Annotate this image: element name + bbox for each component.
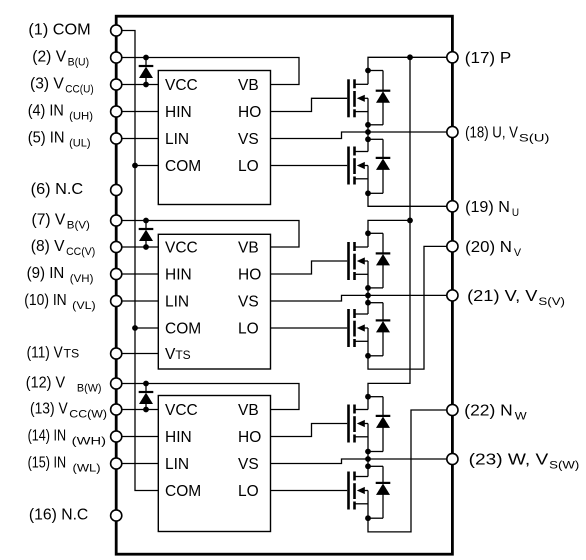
freewheel diode of Q3 (368, 233, 390, 288)
wire HO driver 3 to Q5 gate (271, 424, 348, 437)
pin (18) terminal circle (447, 126, 458, 137)
pin (22) terminal circle (447, 404, 458, 415)
wire HO driver 2 to Q3 gate (271, 261, 348, 274)
svg-text:(10) IN(VL): (10) IN(VL) (24, 292, 96, 312)
wire VS driver 3 to phase node W (271, 459, 369, 464)
junction dot Q5 drain / diode cathode (365, 394, 371, 400)
svg-text:(9) IN(VH): (9) IN(VH) (27, 265, 94, 285)
transistor Q1 (U high-side MOSFET) (349, 79, 369, 117)
junction dot VB(V) / diode cathode (143, 218, 149, 224)
svg-text:VCC: VCC (165, 240, 198, 257)
wire phase node V vertical (Q3 source to Q4 drain) (367, 261, 369, 314)
wire COM bus from pin 1 to driver 3 COM (116, 31, 158, 491)
wire VB(W) from pin to driver 3 VB (116, 384, 299, 410)
svg-text:LIN: LIN (165, 294, 189, 311)
wire phase node W vertical (Q5 source to Q6 drain) (367, 424, 369, 477)
pin (10) terminal circle (111, 295, 122, 306)
bootstrap diode D1 (139, 58, 154, 85)
svg-text:VS: VS (238, 456, 259, 473)
svg-text:VCC: VCC (165, 77, 198, 94)
bootstrap diode D3 (139, 384, 154, 410)
junction dot Q6 drain / diode cathode (365, 463, 371, 469)
junction dot P bus / pin 17 (407, 54, 413, 60)
wire Q2 source to pin 19 N_U (368, 166, 452, 207)
junction dot VB(W) / diode cathode (143, 381, 149, 387)
svg-text:COM: COM (165, 321, 201, 338)
svg-text:HIN: HIN (165, 429, 192, 446)
wire COM bus tap to driver 2 COM (135, 327, 158, 329)
transistor Q5 (W high-side MOSFET) (349, 405, 369, 443)
wire IN(VH) to driver 2 HIN (116, 273, 158, 275)
wire IN(VL) to driver 2 LIN (116, 300, 158, 302)
svg-text:VB: VB (238, 240, 259, 257)
svg-text:(23) W, VS(W): (23) W, VS(W) (469, 452, 580, 472)
svg-text:HIN: HIN (165, 104, 192, 121)
wire Q4 source to pin 20 N_V (368, 246, 452, 369)
junction dot VCC(V) / diode anode (143, 244, 149, 250)
pin (12) terminal circle (111, 378, 122, 389)
wire Q6 source to pin 22 N_W (368, 410, 452, 532)
P bus tap to high-side V drain (368, 220, 410, 247)
junction dot phase node U (365, 129, 371, 135)
gate driver block U1 (158, 71, 270, 205)
svg-text:(16) N.C: (16) N.C (29, 507, 88, 524)
junction dot Q3 drain / diode cathode (365, 230, 371, 236)
pin (17) terminal circle (447, 52, 458, 63)
svg-text:LIN: LIN (165, 131, 189, 148)
gate driver block U2 (158, 234, 270, 369)
svg-text:VS: VS (238, 131, 259, 148)
svg-text:(15) IN(WL): (15) IN(WL) (28, 455, 101, 475)
wire LO driver 3 to Q6 gate (271, 490, 348, 492)
svg-text:COM: COM (165, 158, 201, 175)
svg-text:LO: LO (238, 321, 259, 338)
svg-text:LO: LO (238, 158, 259, 175)
wire VCC(W) from pin to driver 3 VCC (116, 409, 158, 411)
wire VB(U) from pin to driver 1 VB (116, 58, 299, 85)
freewheel diode of Q5 (368, 397, 390, 452)
transistor Q6 (W low-side MOSFET) (349, 472, 369, 510)
freewheel diode of Q6 (368, 466, 390, 518)
wire U node to pin 18 (368, 131, 452, 133)
pin (8) terminal circle (111, 241, 122, 252)
svg-text:(8) VCC(V): (8) VCC(V) (31, 238, 96, 258)
pin (2) terminal circle (111, 52, 122, 63)
svg-text:(19) NU: (19) NU (465, 199, 519, 219)
pin (19) terminal circle (447, 201, 458, 212)
svg-text:(13) VCC(W): (13) VCC(W) (30, 401, 107, 421)
svg-text:(12) VB(W): (12) VB(W) (26, 375, 102, 395)
wire COM bus tap to driver 1 COM (135, 165, 158, 167)
pin (4) terminal circle (111, 106, 122, 117)
svg-text:VS: VS (238, 294, 259, 311)
freewheel diode of Q4 (368, 303, 390, 356)
pin (7) terminal circle (111, 215, 122, 226)
transistor Q3 (V high-side MOSFET) (349, 242, 369, 280)
svg-text:COM: COM (165, 483, 201, 500)
junction dot VCC(U) / diode anode (143, 82, 149, 88)
wire IN(UH) to driver 1 HIN (116, 111, 158, 113)
wire IN(UL) to driver 1 LIN (116, 138, 158, 140)
svg-text:(6) N.C: (6) N.C (31, 181, 83, 198)
pin (20) terminal circle (447, 241, 458, 252)
wire pin 17 P to high-side U drain (368, 57, 452, 84)
transistor Q4 (V low-side MOSFET) (349, 309, 369, 347)
wire VS driver 2 to phase node V (271, 295, 369, 301)
svg-text:VB: VB (238, 402, 259, 419)
junction dot phase node W (365, 456, 371, 462)
transistor Q2 (U low-side MOSFET) (349, 147, 369, 185)
freewheel diode of Q2 (368, 139, 390, 193)
wire LO driver 1 to Q2 gate (271, 165, 348, 167)
svg-text:(5) IN(UL): (5) IN(UL) (28, 130, 91, 150)
pin (14) terminal circle (111, 431, 122, 442)
pin (21) terminal circle (447, 290, 458, 301)
pin (9) terminal circle (111, 268, 122, 279)
svg-text:(3) VCC(U): (3) VCC(U) (30, 76, 94, 96)
svg-text:HO: HO (238, 429, 261, 446)
wire VB(V) from pin to driver 2 VB (116, 221, 299, 248)
svg-text:(18) U, VS(U): (18) U, VS(U) (465, 125, 550, 145)
svg-text:(11) VTS: (11) VTS (27, 345, 80, 362)
bootstrap diode D2 (139, 221, 154, 248)
freewheel diode of Q1 (368, 71, 390, 125)
junction dot COM bus / driver 2 COM (132, 325, 138, 331)
svg-text:(14) IN(WH): (14) IN(WH) (28, 428, 107, 448)
wire HO driver 1 to Q1 gate (271, 98, 348, 111)
pin (16) terminal circle (111, 510, 122, 521)
module outline (116, 16, 452, 554)
wire IN(WH) to driver 3 HIN (116, 436, 158, 438)
junction dot Q2 drain / diode cathode (365, 136, 371, 142)
pin (13) terminal circle (111, 404, 122, 415)
svg-text:(7) VB(V): (7) VB(V) (32, 212, 91, 232)
wire IN(WL) to driver 3 LIN (116, 463, 158, 465)
wire phase node U vertical (Q1 source to Q2 drain) (367, 98, 369, 151)
wire W node to pin 23 (368, 458, 452, 460)
svg-text:(21) V, VS(V): (21) V, VS(V) (467, 288, 565, 308)
pin (6) terminal circle (111, 184, 122, 195)
junction dot VB(U) / diode cathode (143, 55, 149, 61)
svg-text:LIN: LIN (165, 456, 189, 473)
pin (23) terminal circle (447, 453, 458, 464)
wire VTS pin 11 to driver 2 (116, 353, 158, 355)
junction dot Q3 source / diode anode (365, 285, 371, 291)
junction dot Q2 source / diode anode (365, 190, 371, 196)
junction dot COM bus / driver 1 COM (132, 163, 138, 169)
svg-text:(20) NV: (20) NV (465, 239, 521, 259)
svg-text:VTS: VTS (165, 346, 191, 363)
svg-text:LO: LO (238, 483, 259, 500)
junction dot VCC(W) / diode anode (143, 407, 149, 413)
pin (3) terminal circle (111, 79, 122, 90)
pin (11) terminal circle (111, 348, 122, 359)
junction dot P bus / V drain tap (407, 218, 413, 224)
svg-text:(4) IN(UH): (4) IN(UH) (28, 103, 94, 123)
junction dot Q5 source / diode anode (365, 449, 371, 455)
wire VCC(V) from pin to driver 2 VCC (116, 246, 158, 248)
pin (15) terminal circle (111, 458, 122, 469)
junction dot Q1 source / diode anode (365, 122, 371, 128)
svg-text:(2) VB(U): (2) VB(U) (32, 49, 89, 69)
svg-text:(1) COM: (1) COM (28, 22, 90, 39)
junction dot Q4 source / diode anode (365, 353, 371, 359)
svg-text:VCC: VCC (165, 402, 198, 419)
junction dot Q1 drain / diode cathode (365, 68, 371, 74)
junction dot Q4 drain / diode cathode (365, 300, 371, 306)
junction dot Q6 source / diode anode (365, 515, 371, 521)
svg-text:(22) NW: (22) NW (464, 403, 527, 423)
gate driver block U3 (158, 396, 270, 532)
wire V node to pin 21 (368, 294, 452, 296)
svg-text:VB: VB (238, 77, 259, 94)
wire LO driver 2 to Q4 gate (271, 327, 348, 329)
junction dot phase node V (365, 293, 371, 299)
pin (5) terminal circle (111, 133, 122, 144)
svg-text:HIN: HIN (165, 267, 192, 284)
P bus wire (368, 57, 410, 409)
svg-text:HO: HO (238, 267, 261, 284)
svg-text:HO: HO (238, 104, 261, 121)
wire VCC(U) from pin to driver 1 VCC (116, 84, 158, 86)
svg-text:(17) P: (17) P (465, 50, 511, 67)
wire VS driver 1 to phase node U (271, 132, 369, 139)
pin (1) terminal circle (111, 25, 122, 36)
